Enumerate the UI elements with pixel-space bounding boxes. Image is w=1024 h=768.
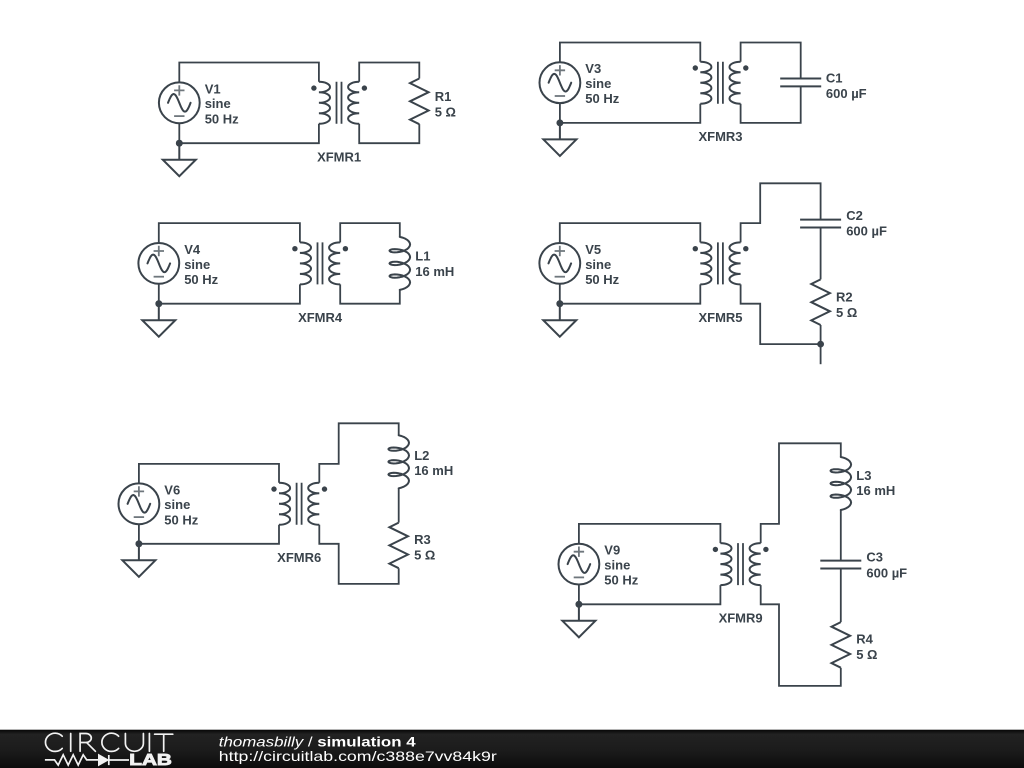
wire XFMR1 secondary top to R1 bbox=[359, 63, 419, 82]
label R1 5 ohm bbox=[435, 89, 456, 119]
transformer XFMR4 bbox=[292, 242, 348, 284]
svg-text:R2: R2 bbox=[836, 290, 853, 305]
resistor R4 bbox=[832, 622, 851, 668]
voltage source V3 (sine) bbox=[540, 62, 581, 103]
svg-text:5 Ω: 5 Ω bbox=[836, 305, 857, 320]
wire R3 to XFMR6 secondary bottom bbox=[319, 525, 398, 584]
ground bbox=[122, 540, 155, 576]
voltage source V6 (sine) bbox=[118, 483, 159, 524]
voltage source V4 (sine) bbox=[138, 243, 179, 284]
svg-text:XFMR5: XFMR5 bbox=[698, 310, 742, 325]
node ground junction V1 bbox=[176, 140, 183, 147]
svg-text:16 mH: 16 mH bbox=[856, 483, 895, 498]
svg-text:V3: V3 bbox=[585, 61, 601, 76]
label XFMR1 bbox=[317, 150, 361, 165]
transformer XFMR5 bbox=[693, 242, 749, 284]
wire XFMR6 secondary top to L2 bbox=[319, 423, 398, 483]
node ground junction V3 bbox=[557, 120, 564, 127]
capacitor C2 bbox=[800, 220, 841, 228]
voltage source V5 (sine) bbox=[539, 243, 580, 284]
label V3 sine 50 Hz bbox=[585, 61, 619, 106]
label R4 5 ohm bbox=[856, 632, 877, 662]
label XFMR4 bbox=[298, 310, 343, 325]
svg-text:600 µF: 600 µF bbox=[826, 86, 867, 101]
transformer XFMR9 bbox=[713, 543, 769, 585]
ground bbox=[562, 601, 595, 637]
resistor R1 bbox=[410, 79, 429, 125]
wire V4+ to XFMR4 primary top bbox=[159, 223, 300, 243]
wire XFMR6 primary bottom to V6- bbox=[139, 524, 279, 544]
svg-text:R1: R1 bbox=[435, 89, 452, 104]
label V9 sine 50 Hz bbox=[604, 543, 638, 588]
label V5 sine 50 Hz bbox=[585, 242, 619, 287]
svg-text:5 Ω: 5 Ω bbox=[414, 547, 435, 562]
inductor L3 bbox=[831, 457, 852, 510]
svg-text:600 µF: 600 µF bbox=[866, 565, 907, 580]
label C3 600 uF bbox=[866, 550, 907, 581]
node output junction bbox=[817, 341, 824, 348]
voltage source V9 (sine) bbox=[559, 544, 600, 585]
svg-text:V6: V6 bbox=[164, 482, 180, 497]
svg-text:V1: V1 bbox=[205, 81, 221, 96]
transformer XFMR3 bbox=[693, 62, 749, 104]
wire XFMR1 primary bottom to V1- bbox=[179, 123, 319, 143]
svg-text:LAB: LAB bbox=[129, 752, 172, 768]
footer title thomasbilly / simulation 4 bbox=[219, 733, 416, 749]
wire XFMR9 secondary top to L3 bbox=[761, 443, 841, 543]
node ground junction V9 bbox=[576, 601, 583, 608]
ground bbox=[543, 300, 576, 336]
wire R1 to XFMR1 secondary bottom bbox=[359, 124, 419, 143]
svg-text:XFMR1: XFMR1 bbox=[317, 150, 361, 165]
svg-text:V4: V4 bbox=[184, 242, 201, 257]
wire XFMR4 primary bottom to V4- bbox=[159, 284, 300, 304]
label R2 5 ohm bbox=[836, 290, 857, 320]
wire XFMR3 secondary top to C1 bbox=[741, 43, 801, 79]
svg-text:XFMR4: XFMR4 bbox=[298, 310, 343, 325]
svg-text:thomasbilly / simulation 4: thomasbilly / simulation 4 bbox=[219, 733, 416, 749]
resistor R2 bbox=[811, 279, 830, 325]
wire V3+ to XFMR3 primary top bbox=[560, 43, 700, 63]
logo diode doodle bbox=[99, 755, 130, 766]
svg-text:50 Hz: 50 Hz bbox=[585, 272, 619, 287]
node ground junction V6 bbox=[136, 540, 143, 547]
wire XFMR3 primary bottom to V3- bbox=[560, 103, 700, 123]
wire R2 to output node bbox=[820, 325, 822, 344]
svg-text:5 Ω: 5 Ω bbox=[856, 647, 877, 662]
svg-text:5 Ω: 5 Ω bbox=[435, 105, 456, 120]
ground bbox=[163, 140, 196, 176]
svg-text:XFMR9: XFMR9 bbox=[719, 611, 763, 626]
wire V9+ to XFMR9 primary top bbox=[579, 524, 721, 544]
svg-text:600 µF: 600 µF bbox=[846, 223, 887, 238]
svg-text:R3: R3 bbox=[414, 532, 431, 547]
voltage source V1 (sine) bbox=[159, 82, 200, 123]
svg-text:sine: sine bbox=[205, 96, 231, 111]
wire C3 to R4 bbox=[840, 569, 842, 623]
svg-text:sine: sine bbox=[585, 76, 611, 91]
svg-text:50 Hz: 50 Hz bbox=[164, 512, 198, 527]
wire C1 to XFMR3 secondary bottom bbox=[741, 86, 801, 123]
wire XFMR5 primary bottom to V5- bbox=[560, 284, 701, 304]
wire XFMR4 secondary top to L1 bbox=[340, 223, 400, 242]
svg-text:C3: C3 bbox=[866, 550, 883, 565]
transformer XFMR1 bbox=[311, 82, 367, 124]
svg-text:sine: sine bbox=[184, 257, 210, 272]
svg-text:L2: L2 bbox=[414, 448, 429, 463]
svg-text:sine: sine bbox=[164, 497, 190, 512]
svg-text:L1: L1 bbox=[415, 249, 430, 264]
capacitor C3 bbox=[820, 561, 861, 569]
inductor L1 bbox=[390, 237, 411, 290]
svg-text:16 mH: 16 mH bbox=[414, 463, 453, 478]
label L3 16 mH bbox=[856, 468, 895, 498]
svg-text:http://circuitlab.com/c388e7vv: http://circuitlab.com/c388e7vv84k9r bbox=[219, 748, 497, 764]
svg-text:50 Hz: 50 Hz bbox=[585, 91, 619, 106]
label XFMR6 bbox=[277, 550, 321, 565]
ground bbox=[142, 300, 175, 336]
svg-text:C2: C2 bbox=[846, 208, 863, 223]
svg-text:50 Hz: 50 Hz bbox=[184, 272, 218, 287]
CircuitLab logo wordmark CIRCUIT bbox=[45, 733, 172, 751]
inductor L2 bbox=[388, 435, 409, 488]
node ground junction V4 bbox=[155, 300, 162, 307]
label V6 sine 50 Hz bbox=[164, 482, 198, 527]
footer url bbox=[219, 748, 497, 764]
label L2 16 mH bbox=[414, 448, 453, 478]
label L1 16 mH bbox=[415, 249, 454, 279]
wire V1+ to XFMR1 primary top bbox=[179, 63, 319, 83]
label XFMR9 bbox=[719, 611, 763, 626]
wire R4 to XFMR9 secondary bottom bbox=[761, 585, 841, 686]
wire XFMR9 primary bottom to V9- bbox=[579, 585, 721, 605]
svg-text:XFMR3: XFMR3 bbox=[698, 129, 742, 144]
wire V5+ to XFMR5 primary top bbox=[560, 223, 701, 243]
label C1 600 uF bbox=[826, 70, 867, 101]
svg-text:V9: V9 bbox=[604, 543, 620, 558]
node ground junction V5 bbox=[556, 300, 563, 307]
svg-text:R4: R4 bbox=[856, 632, 873, 647]
wire output stub bbox=[820, 344, 822, 364]
capacitor C1 bbox=[780, 79, 821, 87]
label V4 sine 50 Hz bbox=[184, 242, 218, 287]
logo resistor doodle bbox=[45, 755, 99, 765]
wire L3 to C3 bbox=[840, 510, 842, 561]
wire L1 to XFMR4 secondary bottom bbox=[340, 284, 400, 303]
ground bbox=[543, 120, 576, 156]
wire L2 to R3 bbox=[398, 488, 400, 522]
svg-text:V5: V5 bbox=[585, 242, 601, 257]
resistor R3 bbox=[389, 523, 408, 569]
CircuitLab logo LAB bbox=[129, 752, 172, 768]
svg-text:16 mH: 16 mH bbox=[415, 264, 454, 279]
svg-text:C1: C1 bbox=[826, 70, 843, 85]
svg-text:L3: L3 bbox=[856, 468, 871, 483]
wire V6+ to XFMR6 primary top bbox=[139, 464, 279, 484]
svg-text:50 Hz: 50 Hz bbox=[604, 573, 638, 588]
label C2 600 uF bbox=[846, 208, 887, 239]
svg-text:50 Hz: 50 Hz bbox=[205, 111, 239, 126]
wire C2 to R2 bbox=[820, 228, 822, 280]
transformer XFMR6 bbox=[271, 483, 327, 525]
label XFMR3 bbox=[698, 129, 742, 144]
label V1 sine 50 Hz bbox=[205, 81, 239, 126]
label XFMR5 bbox=[698, 310, 742, 325]
wire XFMR5 secondary bottom to output node bbox=[741, 284, 821, 344]
svg-text:sine: sine bbox=[604, 558, 630, 573]
label R3 5 ohm bbox=[414, 532, 435, 562]
svg-text:XFMR6: XFMR6 bbox=[277, 550, 321, 565]
wire XFMR5 secondary top to C2 bbox=[741, 183, 821, 242]
svg-text:sine: sine bbox=[585, 257, 611, 272]
